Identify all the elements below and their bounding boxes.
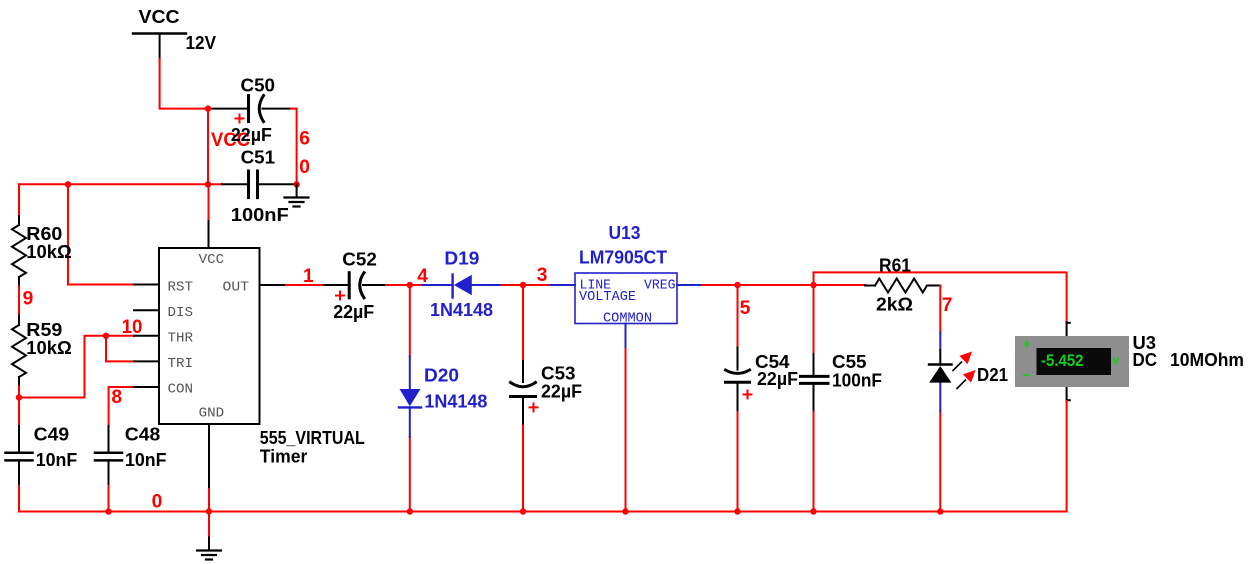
capacitor C50	[249, 96, 264, 122]
resistor R61	[875, 279, 927, 293]
svg-text:22µF: 22µF	[333, 301, 374, 322]
value 10nF C48	[125, 449, 167, 470]
junction node 10 left rail	[16, 394, 22, 400]
wire D20 branch top	[409, 285, 411, 356]
svg-text:C50: C50	[241, 74, 276, 95]
junction node 0 at C51	[293, 181, 299, 187]
svg-text:COMMON: COMMON	[603, 311, 652, 326]
svg-text:DC: DC	[1133, 349, 1158, 370]
label DC mode	[1133, 349, 1158, 370]
wire D20 branch bottom	[409, 437, 411, 512]
junction rail C55	[810, 508, 816, 514]
label VCC power	[139, 6, 180, 27]
svg-text:D20: D20	[424, 365, 459, 386]
svg-text:CON: CON	[168, 382, 194, 398]
wire C48 bottom lead	[108, 462, 110, 512]
node label 9	[23, 288, 34, 309]
value 22uF C52	[333, 301, 374, 322]
svg-text:22µF: 22µF	[757, 368, 798, 389]
svg-text:12V: 12V	[186, 32, 217, 53]
label U3	[1133, 332, 1157, 353]
pin U13 COMMON stub	[625, 324, 627, 348]
regulator U13 box	[575, 273, 677, 324]
wire R59 bottom lead	[18, 377, 20, 387]
value 22uF C54	[757, 368, 798, 389]
label C55	[832, 351, 867, 372]
svg-text:1N4148: 1N4148	[424, 391, 487, 412]
node label 4	[417, 266, 428, 287]
svg-text:U13: U13	[609, 222, 641, 243]
capacitor C53	[511, 383, 536, 397]
wire C55 bottom lead	[813, 383, 815, 511]
pin DIS stub	[134, 309, 159, 311]
wire meter bottom down	[1066, 401, 1068, 512]
node label 7	[942, 295, 953, 316]
capacitor C55	[801, 376, 829, 383]
junction node 4	[407, 282, 413, 288]
node label 8	[111, 387, 122, 408]
pin text 555 VCC	[199, 252, 225, 268]
wire THR branch	[19, 336, 134, 398]
wire meter loop top	[814, 272, 1067, 322]
label C49	[34, 424, 69, 445]
wire C53 top lead	[522, 285, 524, 382]
pin THR stub	[134, 335, 159, 337]
wire C48 top lead	[108, 426, 110, 452]
svg-text:DIS: DIS	[168, 305, 194, 321]
polarity mark C54	[744, 391, 752, 399]
capacitor C52	[349, 273, 364, 298]
wire 555 VCC pin feed	[208, 184, 210, 248]
pin TRI stub	[134, 360, 159, 362]
wire OUT net 1	[260, 284, 348, 286]
svg-text:R61: R61	[879, 255, 911, 276]
svg-text:RST: RST	[168, 280, 194, 296]
pin U13 VREG stub	[677, 284, 701, 286]
polarity mark C50	[236, 115, 244, 123]
junction node VCC left	[65, 181, 71, 187]
label U13	[609, 222, 641, 243]
svg-text:10: 10	[122, 317, 143, 338]
wire C50 left lead	[208, 108, 247, 110]
svg-text:10nF: 10nF	[36, 449, 77, 470]
svg-text:2kΩ: 2kΩ	[876, 293, 913, 314]
svg-text:-5.452: -5.452	[1041, 351, 1084, 370]
svg-text:22µF: 22µF	[541, 381, 582, 402]
label C53	[541, 362, 576, 383]
resistor R60	[12, 225, 26, 277]
value 100nF C55	[832, 369, 882, 390]
pin U13 LINE stub	[551, 284, 575, 286]
wire meter top terminal	[1067, 322, 1070, 336]
node label 3	[537, 265, 548, 286]
pin text VREG	[644, 279, 676, 294]
wire ground rail net 0	[19, 511, 1067, 513]
wire CON branch net 8	[109, 387, 134, 426]
wire ground stub below rail	[208, 512, 210, 538]
value 10k R59	[26, 337, 72, 358]
svg-text:VOLTAGE: VOLTAGE	[579, 290, 636, 305]
diode D20	[399, 356, 421, 437]
multimeter display	[1037, 348, 1112, 375]
svg-text:OUT: OUT	[223, 280, 250, 296]
ground below 555	[197, 538, 221, 560]
wire net 6 vertical x296	[296, 109, 298, 185]
svg-text:C51: C51	[241, 147, 276, 168]
value 10nF C49	[36, 449, 77, 470]
node label 10	[122, 317, 143, 338]
label Timer	[260, 446, 308, 467]
wire C49 bottom lead	[18, 462, 20, 512]
pin text TRI	[168, 356, 194, 372]
node label 0 upper	[299, 157, 310, 178]
wire C51 right lead	[259, 183, 297, 185]
wire U13 COMMON down	[625, 347, 627, 512]
svg-text:1N4148: 1N4148	[430, 299, 493, 320]
pin text VOLTAGE	[579, 290, 636, 305]
wire U13 out net 5	[701, 284, 865, 286]
svg-text:5: 5	[740, 298, 751, 319]
svg-text:VCC: VCC	[139, 6, 180, 27]
wire C54 top lead	[737, 285, 739, 370]
label C51	[241, 147, 276, 168]
diode D19	[423, 275, 500, 298]
svg-text:D19: D19	[444, 248, 479, 269]
wire R60 top lead	[18, 216, 20, 225]
svg-text:C49: C49	[34, 424, 69, 445]
svg-text:8: 8	[111, 387, 122, 408]
wire R60 bottom lead	[18, 277, 20, 287]
wire D21 bottom	[939, 411, 941, 511]
wire C50 right lead	[263, 108, 297, 110]
pin text COMMON	[603, 311, 652, 326]
capacitor C54	[726, 370, 750, 382]
label LM7905CT	[579, 246, 668, 267]
label D20	[424, 365, 459, 386]
svg-text:3: 3	[537, 265, 548, 286]
label 10MOhm	[1170, 349, 1244, 370]
meter minus mark	[1024, 374, 1030, 376]
pin text CON	[168, 382, 194, 398]
pin text OUT	[223, 280, 250, 296]
wire node VCC vertical x208	[207, 109, 209, 185]
junction node 3	[520, 282, 526, 288]
pin RST stub	[134, 284, 159, 286]
svg-text:VCC: VCC	[199, 252, 225, 268]
wire C52 right lead net 4	[363, 284, 423, 286]
label C52	[342, 249, 377, 270]
svg-text:GND: GND	[199, 405, 225, 421]
junction node 5 at C55	[810, 282, 816, 288]
meter unit v	[1113, 353, 1120, 367]
pin text GND	[199, 405, 225, 421]
wire meter bottom terminal	[1067, 387, 1070, 401]
junction rail C54	[734, 508, 740, 514]
svg-text:22µF: 22µF	[231, 124, 272, 145]
polarity mark C53	[530, 403, 538, 411]
polarity mark C52	[336, 292, 344, 300]
junction node 5	[734, 282, 740, 288]
capacitor C51	[249, 171, 258, 198]
junction node VCC top	[205, 105, 211, 111]
value 100nF C51	[231, 204, 289, 225]
wire C54 bottom lead	[737, 382, 739, 511]
svg-text:7: 7	[942, 295, 953, 316]
junction rail D20	[407, 508, 413, 514]
power symbol VCC	[133, 34, 186, 60]
wire R61 right lead net 7	[929, 286, 940, 334]
wire R59 top lead	[18, 316, 20, 326]
wire 555 GND pin	[208, 424, 210, 512]
wire left rail top	[18, 184, 20, 216]
label C54	[755, 351, 790, 372]
capacitor C48	[95, 453, 122, 461]
svg-text:10kΩ: 10kΩ	[26, 241, 72, 262]
svg-text:9: 9	[23, 288, 34, 309]
wire C49 top lead	[18, 398, 20, 452]
svg-text:LM7905CT: LM7905CT	[579, 246, 668, 267]
svg-text:Timer: Timer	[260, 446, 308, 467]
svg-text:100nF: 100nF	[231, 204, 289, 225]
wire net VCC horizontal y184	[19, 183, 222, 185]
junction rail COMMON	[622, 508, 628, 514]
pin text RST	[168, 280, 194, 296]
svg-text:0: 0	[152, 492, 163, 513]
value 1N4148 D19	[430, 299, 493, 320]
node label 1	[303, 266, 314, 287]
junction rail C53	[520, 508, 526, 514]
junction rail D21	[937, 508, 943, 514]
junction rail 555 GND	[206, 508, 212, 514]
label C50	[241, 74, 276, 95]
svg-text:C52: C52	[342, 249, 377, 270]
label D19	[444, 248, 479, 269]
svg-text:100nF: 100nF	[832, 369, 882, 390]
wire R61 left lead	[865, 285, 875, 287]
wire RST net 9	[68, 184, 134, 284]
value 1N4148 D20	[424, 391, 487, 412]
value 2kOhm R61	[876, 293, 913, 314]
multimeter U3 body	[1015, 336, 1129, 387]
svg-text:TRI: TRI	[168, 356, 194, 372]
wire C53 bottom lead	[522, 397, 524, 512]
wire C55 top lead	[813, 285, 815, 376]
wire left rail mid	[18, 287, 20, 316]
svg-text:1: 1	[303, 266, 314, 287]
pin text DIS	[168, 305, 194, 321]
svg-text:10MOhm: 10MOhm	[1170, 349, 1244, 370]
resistor R59	[12, 325, 26, 377]
svg-text:0: 0	[299, 157, 310, 178]
node label 0 rail	[152, 492, 163, 513]
value 22uF C50	[231, 124, 272, 145]
wire TRI branch	[106, 336, 134, 362]
junction rail C48	[105, 508, 111, 514]
LED arrows D21	[953, 352, 976, 389]
capacitor C49	[6, 453, 33, 461]
value 10k R60	[26, 241, 72, 262]
label R59	[26, 319, 62, 340]
svg-text:C48: C48	[125, 424, 161, 445]
pin text LINE	[580, 279, 612, 294]
pin CON stub	[134, 386, 159, 388]
IC 555_VIRTUAL timer box	[159, 248, 260, 424]
junction node 10	[103, 333, 109, 339]
value 12V	[186, 32, 217, 53]
wire D19 to net 3	[500, 284, 551, 286]
label D21	[977, 364, 1008, 385]
svg-text:4: 4	[417, 266, 428, 287]
svg-text:THR: THR	[168, 330, 194, 346]
svg-text:10nF: 10nF	[125, 449, 167, 470]
label R60	[26, 223, 62, 244]
node label 5	[740, 298, 751, 319]
svg-text:10kΩ: 10kΩ	[26, 337, 72, 358]
wire left rail low	[18, 387, 20, 398]
node name VCC red	[211, 130, 250, 151]
ground at C51	[285, 184, 309, 206]
wire VCC drop to node	[160, 59, 208, 109]
svg-text:D21: D21	[977, 364, 1008, 385]
value 22uF C53	[541, 381, 582, 402]
node label 6	[299, 129, 310, 150]
svg-text:6: 6	[299, 129, 310, 150]
label C48	[125, 424, 161, 445]
wire C51 left lead	[222, 183, 247, 185]
LED D21	[929, 333, 952, 411]
meter plus mark	[1024, 341, 1030, 347]
meter reading text	[1041, 351, 1084, 370]
svg-text:v: v	[1113, 353, 1120, 367]
svg-text:VREG: VREG	[644, 279, 676, 294]
junction node VCC mid	[205, 181, 211, 187]
label R61	[879, 255, 911, 276]
pin text THR	[168, 330, 194, 346]
label 555_VIRTUAL	[260, 427, 365, 448]
